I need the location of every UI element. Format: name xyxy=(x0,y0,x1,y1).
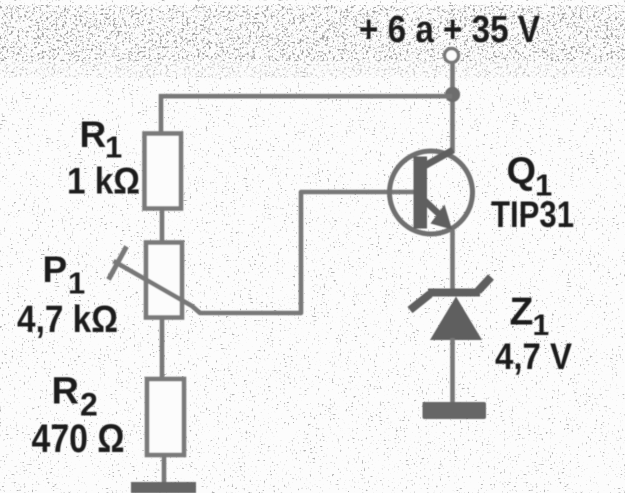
ground (right, below Z1) xyxy=(423,402,487,419)
label Q1 type TIP31 xyxy=(491,194,574,235)
resistor R1 xyxy=(145,134,182,209)
potentiometer P1 body xyxy=(146,243,182,318)
potentiometer P1 wiper arm and wire to base xyxy=(114,192,421,313)
zener diode Z1 cathode bar xyxy=(410,277,491,310)
svg-text:R: R xyxy=(80,114,107,155)
svg-text:4,7 V: 4,7 V xyxy=(495,336,572,377)
svg-text:Z: Z xyxy=(510,291,534,334)
label P1 value 4,7 kOhm xyxy=(17,299,118,341)
wire R2 to ground xyxy=(162,455,167,484)
transistor Q1 collector stroke xyxy=(424,150,454,167)
label Z1 value 4,7 V xyxy=(495,336,572,377)
svg-text:R: R xyxy=(52,371,79,413)
label R1 value 1 kOhm xyxy=(67,161,140,202)
wire top horizontal xyxy=(161,96,452,133)
wire R1 to P1 xyxy=(160,208,165,243)
wire supply vertical (terminal to collector) xyxy=(450,63,455,153)
svg-text:4,7 kΩ: 4,7 kΩ xyxy=(17,299,118,341)
scan noise band top xyxy=(0,5,625,61)
svg-text:P: P xyxy=(43,249,68,290)
label P1 xyxy=(43,249,86,301)
label Q1 xyxy=(507,151,553,203)
label R1 xyxy=(80,114,123,165)
ground (left, below R2) xyxy=(131,482,196,493)
transistor Q1 emitter stroke with arrow xyxy=(424,200,452,230)
transistor Q1 circle xyxy=(390,151,473,234)
label Z1 xyxy=(510,291,550,343)
wire zener to ground xyxy=(450,338,455,404)
resistor R2 xyxy=(147,379,184,455)
wire emitter to zener xyxy=(450,230,455,291)
transistor Q1 base bar xyxy=(414,157,428,229)
zener diode Z1 anode triangle xyxy=(430,297,482,341)
svg-text:Q: Q xyxy=(507,151,537,193)
svg-text:1: 1 xyxy=(105,130,122,165)
svg-text:TIP31: TIP31 xyxy=(491,194,574,235)
label R2 xyxy=(52,371,98,423)
svg-text:470 Ω: 470 Ω xyxy=(32,417,125,461)
potentiometer P1 wiper end tick xyxy=(109,247,127,280)
label supply +6 a +35 V xyxy=(359,9,541,51)
svg-text:1: 1 xyxy=(68,266,85,301)
wire P1 to R2 xyxy=(160,317,165,380)
label R2 value 470 Ohm xyxy=(32,417,125,461)
svg-text:+ 6 a + 35 V: + 6 a + 35 V xyxy=(359,9,541,51)
terminal +V input xyxy=(445,49,459,63)
svg-text:1 kΩ: 1 kΩ xyxy=(67,161,140,202)
junction node supply xyxy=(445,87,460,102)
